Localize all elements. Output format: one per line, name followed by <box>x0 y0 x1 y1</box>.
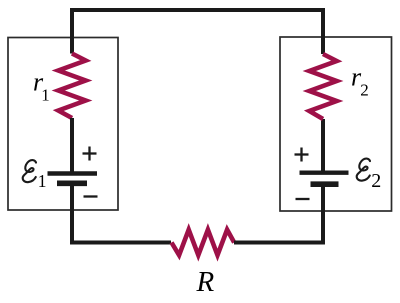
wire from battery 1 to bottom node <box>70 186 74 244</box>
minus sign battery 2 <box>296 198 310 200</box>
battery B2 short plate (-) <box>311 181 339 187</box>
svg-text:1: 1 <box>41 86 50 105</box>
wire top (node between + terminals) <box>72 10 323 54</box>
resistor r2 <box>309 54 336 119</box>
emf label E1 (script E) <box>23 160 47 191</box>
svg-text:1: 1 <box>38 171 47 191</box>
label r2 <box>351 63 369 100</box>
label r1 <box>33 68 50 105</box>
wire bottom right (resistor R to battery 2) <box>234 241 325 245</box>
battery box 2 (right EMF source outline) <box>280 37 392 211</box>
wire from r1 to battery 1 <box>70 118 74 172</box>
battery box 1 (left EMF source outline) <box>8 38 118 211</box>
emf label E2 (script E) <box>357 159 382 192</box>
battery B2 long plate (+) <box>300 170 349 174</box>
wire from bottom node to battery 2 <box>321 187 325 245</box>
battery B1 long plate (+) <box>48 171 98 175</box>
svg-text:2: 2 <box>371 170 381 192</box>
svg-text:R: R <box>196 266 215 298</box>
battery B1 short plate (-) <box>57 181 87 187</box>
minus sign battery 1 <box>84 195 98 197</box>
plus sign battery 1 <box>83 147 97 161</box>
resistor R <box>172 230 235 256</box>
wire bottom left (node a to resistor R) <box>70 241 171 245</box>
wire from battery 2 to r2 <box>321 119 325 171</box>
plus sign battery 2 <box>295 148 309 162</box>
svg-text:2: 2 <box>360 81 369 100</box>
resistor r1 <box>58 54 85 119</box>
